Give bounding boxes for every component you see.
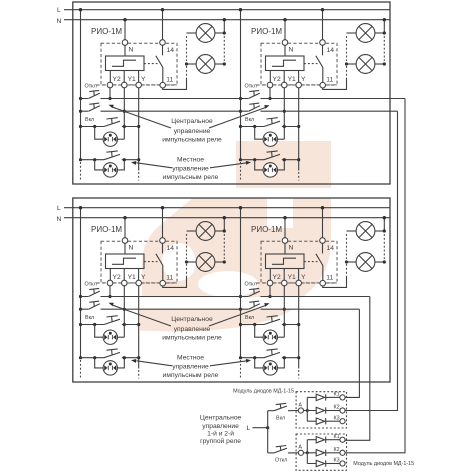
- svg-text:1-й и 2-й: 1-й и 2-й: [207, 429, 234, 437]
- wire bus: [267, 411, 269, 453]
- watermark logo (pale): [140, 141, 331, 332]
- wire block1 row1 to К2 of module2: [345, 99, 405, 453]
- diode module U2: [296, 434, 346, 471]
- svg-text:L: L: [247, 425, 251, 432]
- svg-text:Откл: Откл: [275, 458, 287, 464]
- row1 central off wire: [81, 296, 370, 298]
- caption central group control: [200, 414, 242, 445]
- wire block2 row2 to К1 of module1: [345, 309, 359, 397]
- row1 central off wire: [81, 98, 406, 100]
- svg-text:Вкл: Вкл: [276, 416, 285, 422]
- group 2 frame: [73, 198, 390, 382]
- wire block1 row2 to К2 of module1: [345, 111, 397, 410]
- svg-text:Центральное: Центральное: [200, 414, 242, 421]
- svg-text:группой реле: группой реле: [200, 437, 241, 445]
- row2 central on wire: [81, 110, 398, 112]
- diode module U1: [296, 392, 346, 429]
- svg-text:Модуль диодов МД-1-15: Модуль диодов МД-1-15: [233, 388, 294, 394]
- svg-text:управление: управление: [202, 423, 239, 430]
- svg-text:Модуль диодов МД-1-15: Модуль диодов МД-1-15: [353, 461, 414, 467]
- wire block2 row1 to К1 of module2: [345, 297, 370, 441]
- row2 central on wire: [81, 308, 360, 310]
- group 1 frame: [73, 2, 390, 184]
